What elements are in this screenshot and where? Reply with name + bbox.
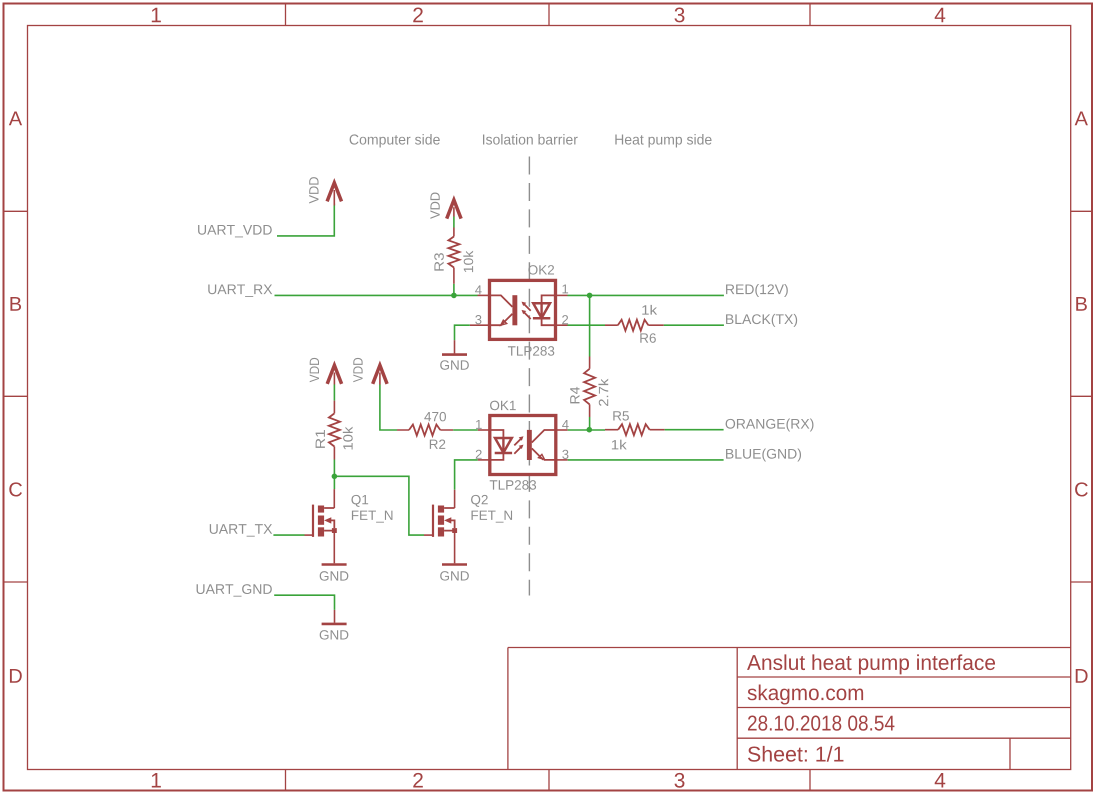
column number 3 bottom [674,773,684,788]
wire VDD to R1 [333,385,335,401]
wire OK1 pin4 to junction [568,429,605,431]
resistor R4 [584,357,595,418]
wire RED(12V) net [568,294,724,296]
row letter C left [9,482,22,496]
value 1k (R6) [642,305,657,315]
pin 1 OK1 [476,420,490,430]
optocoupler OK2 [490,280,556,339]
pin 3 OK1 [556,450,569,460]
row letter B right [1076,297,1087,311]
label VDD (UART_VDD arrow) [309,177,318,203]
optocoupler OK1 [490,416,556,475]
column number 1 top [152,8,161,22]
resistor R6 [605,320,664,331]
transistor Q2 [424,490,457,537]
wire UART_RX net [275,284,478,296]
label R1 [316,430,325,448]
value 2.7k (R4) [598,379,608,406]
wire UART_GND net [274,595,334,610]
row letter A left [9,112,22,126]
column number 1 bottom [152,773,161,787]
row letter B left [10,297,21,311]
label BLACK(TX) [726,314,797,327]
pin 2 OK1 [476,450,490,460]
supply VDD arrow (R1) [327,365,341,384]
value 10k (R1) [343,427,353,450]
label VDD (R2 arrow) [353,358,362,382]
title text Anslut heat pump interface [747,654,995,674]
wire R1 to Q1 drain [333,460,335,490]
label R4 [570,387,579,403]
ground GND (OK2) [440,340,469,370]
supply VDD arrow (R2) [373,365,387,384]
junction at R3 / UART_RX [451,293,457,299]
label R5 [613,411,629,420]
label TLP283 (OK1) [490,480,536,490]
value 470 (R2) [424,412,446,422]
label R2 [430,439,445,448]
label FET_N (Q1) [352,511,393,523]
wire VDD to R3 [453,217,455,228]
label UART_TX [210,524,272,536]
junction RED net [587,293,593,299]
ground GND (UART_GND) [320,610,349,640]
wire VDD to R2 [380,385,397,431]
wire RED to R4 [589,295,591,356]
junction ORANGE net [587,427,593,433]
label BLUE(GND) [726,448,801,461]
pin 3 OK2 [470,315,490,325]
wire OK1 pin2 to Q2 drain [455,460,478,490]
label TLP283 (OK2) [508,346,554,356]
label Q2 [471,495,488,507]
label RED(12V) [726,284,788,297]
supply VDD arrow (UART_VDD) [327,183,341,206]
section label Heat pump side [615,134,711,148]
row letter D left [10,669,22,683]
wire ORANGE(RX) net [665,429,724,431]
isolation barrier dashed line [528,157,530,596]
row letter A right [1075,112,1088,126]
junction R1 / Q1 drain / Q2 gate [332,474,338,480]
frame right row dividers [1071,211,1092,582]
wire OK2 pin2 to R6 [568,324,606,326]
label VDD (R3 arrow) [430,193,439,219]
label VDD (R1 arrow) [310,358,319,382]
resistor R5 [605,424,665,435]
transistor Q1 [305,489,337,537]
resistor R1 [329,401,340,460]
wire UART_VDD net [277,204,334,236]
title text skagmo.com [748,685,864,705]
column number 3 top [674,8,684,23]
label UART_RX [208,284,272,296]
supply VDD arrow (R3) [447,200,461,219]
label Q1 [351,495,368,507]
value 10k (R3) [463,251,473,272]
resistor R3 [448,228,459,284]
pin 1 OK2 [556,284,569,295]
value 1k (R5) [612,440,627,450]
wire OK2 pin3 to GND [455,325,470,340]
wire BLUE(GND) net [568,459,724,461]
wire junction to Q2 gate [334,476,424,535]
column number 4 top [935,8,946,22]
resistor R2 [397,425,453,436]
title text Sheet: 1/1 [748,746,843,762]
label FET_N (Q2) [472,511,513,523]
frame top column dividers [286,5,811,26]
frame bottom column dividers [286,770,811,790]
column number 4 bottom [935,773,946,787]
label OK1 [490,401,516,411]
ground GND (Q1) [320,533,349,581]
label ORANGE(RX) [726,418,814,431]
column number 2 top [413,8,423,23]
pin 4 OK2 [475,285,489,295]
section label Isolation barrier [483,134,578,145]
ground GND (Q2) [440,533,469,581]
column number 2 bottom [413,773,423,788]
label R3 [434,253,444,271]
label R6 [640,333,656,343]
frame left row dividers [5,211,28,582]
title text date 28.10.2018 08.54 [748,715,894,730]
pin 2 OK2 [556,315,569,325]
section label Computer side [350,134,440,148]
row letter D right [1076,669,1088,683]
wire UART_TX net [273,534,304,536]
label UART_VDD [198,225,272,237]
wire R4 to ORANGE junction [589,417,591,430]
wire R2 to OK1 pin1 [453,429,478,431]
label UART_GND [197,584,272,597]
pin 4 OK1 [556,420,569,430]
title block outline [508,648,1071,770]
wire BLACK(TX) net [664,324,724,326]
label OK2 [528,265,554,275]
row letter C right [1075,482,1088,496]
